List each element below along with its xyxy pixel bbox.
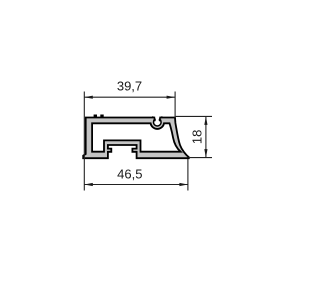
cup slot right wall <box>159 117 162 121</box>
cup right lip <box>159 119 161 121</box>
tooth 1 on top edge <box>94 115 97 118</box>
extension line bottom 18 <box>189 157 212 159</box>
svg-text:46,5: 46,5 <box>117 166 142 181</box>
cup slot left wall <box>152 117 155 121</box>
dimension line 39.7 <box>84 96 175 98</box>
profile body (outer contour + inner chamber hole) <box>83 118 189 159</box>
dimension line 18 <box>205 116 207 157</box>
extension line right 39.7 <box>174 92 176 119</box>
svg-text:39,7: 39,7 <box>117 78 142 93</box>
cup left lip <box>153 119 155 121</box>
screw-port cup cavity <box>154 118 162 126</box>
cup slot opening <box>155 112 159 121</box>
svg-text:18: 18 <box>189 130 204 144</box>
dimension line 46.5 <box>84 184 188 186</box>
extension line left (shared 39.7/46.5) <box>83 92 85 191</box>
extension line top 18 <box>176 115 212 117</box>
tooth 2 on top edge <box>100 115 103 118</box>
extension line right 46.5 <box>187 159 189 191</box>
